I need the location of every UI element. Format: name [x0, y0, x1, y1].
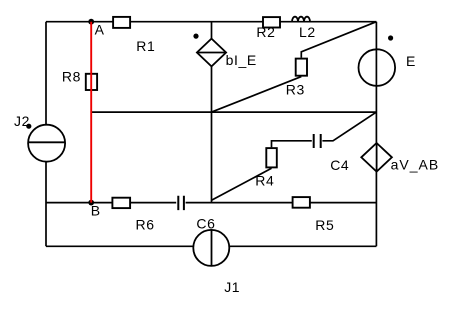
- controlled source bI_E: [197, 39, 226, 67]
- node A dot: [88, 19, 94, 25]
- wire right vertical: [375, 22, 377, 247]
- bI_E polarity dot: [193, 34, 198, 39]
- svg-text:R3: R3: [286, 82, 305, 98]
- resistor R5: [293, 197, 310, 208]
- wire upper bottom rail: [46, 202, 376, 204]
- svg-text:C4: C4: [330, 157, 349, 173]
- svg-text:bI_E: bI_E: [226, 52, 257, 68]
- wire middle rail: [91, 111, 376, 113]
- capacitor C6: [176, 196, 185, 210]
- svg-text:R1: R1: [136, 38, 155, 54]
- svg-text:R4: R4: [255, 173, 274, 189]
- resistor R3: [296, 59, 307, 76]
- svg-text:aV_AB: aV_AB: [391, 156, 440, 172]
- wire diagonal corner to R3: [301, 22, 376, 58]
- voltage source E: [359, 49, 396, 86]
- resistor R8: [86, 74, 97, 90]
- E polarity dot: [388, 35, 393, 40]
- node B dot: [88, 200, 94, 206]
- svg-text:A: A: [95, 22, 105, 38]
- resistor R6: [112, 198, 130, 208]
- capacitor C4: [312, 134, 323, 148]
- svg-text:J1: J1: [224, 279, 240, 295]
- svg-text:J2: J2: [14, 113, 30, 129]
- svg-text:B: B: [91, 203, 101, 219]
- J2 polarity dot: [26, 124, 31, 129]
- wire diagonal R3 to middle node: [212, 77, 302, 113]
- current source J1: [193, 230, 229, 266]
- svg-text:E: E: [406, 53, 416, 69]
- wire A-B highlighted red: [90, 22, 92, 203]
- svg-text:L2: L2: [299, 24, 316, 40]
- svg-text:R2: R2: [256, 24, 275, 40]
- svg-text:R5: R5: [315, 217, 334, 233]
- svg-text:C6: C6: [196, 215, 215, 231]
- wire C4 to corner node: [321, 112, 377, 141]
- svg-text:R6: R6: [136, 216, 155, 232]
- resistor R4: [266, 148, 277, 167]
- wire top rail: [46, 21, 376, 23]
- resistor R2: [263, 17, 280, 27]
- wire R4 to C4: [272, 141, 314, 148]
- wire diagonal R4 to bottom: [212, 168, 272, 200]
- svg-text:R8: R8: [62, 69, 81, 85]
- wire left vertical: [45, 22, 47, 247]
- current source J2: [28, 125, 65, 162]
- inductor L2: [292, 17, 310, 22]
- wire lower bottom rail: [46, 245, 376, 247]
- wire center vertical branch: [211, 22, 213, 203]
- controlled source aV_AB: [361, 143, 392, 172]
- resistor R1: [113, 17, 130, 28]
